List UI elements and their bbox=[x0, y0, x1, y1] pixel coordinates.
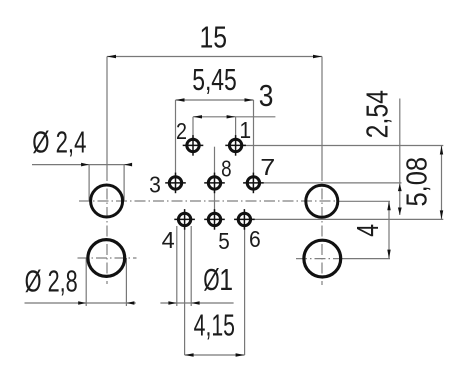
svg-text:Ø: Ø bbox=[203, 262, 219, 297]
svg-text:15: 15 bbox=[200, 20, 228, 54]
svg-text:4,15: 4,15 bbox=[194, 308, 235, 343]
svg-text:7: 7 bbox=[260, 155, 275, 181]
svg-text:4: 4 bbox=[162, 227, 175, 253]
svg-text:3: 3 bbox=[149, 171, 161, 197]
svg-text:Ø 2,4: Ø 2,4 bbox=[32, 125, 86, 160]
svg-text:2: 2 bbox=[176, 117, 187, 144]
svg-text:5,08: 5,08 bbox=[401, 157, 433, 207]
svg-text:1: 1 bbox=[219, 262, 233, 296]
svg-text:3: 3 bbox=[259, 79, 274, 113]
svg-text:2,54: 2,54 bbox=[360, 90, 394, 138]
svg-text:1: 1 bbox=[239, 117, 251, 143]
svg-text:4: 4 bbox=[350, 224, 385, 237]
svg-text:5: 5 bbox=[218, 228, 230, 255]
svg-text:Ø 2,8: Ø 2,8 bbox=[25, 264, 78, 299]
svg-text:5,45: 5,45 bbox=[192, 62, 237, 97]
svg-text:6: 6 bbox=[249, 226, 261, 252]
svg-text:8: 8 bbox=[221, 155, 231, 182]
